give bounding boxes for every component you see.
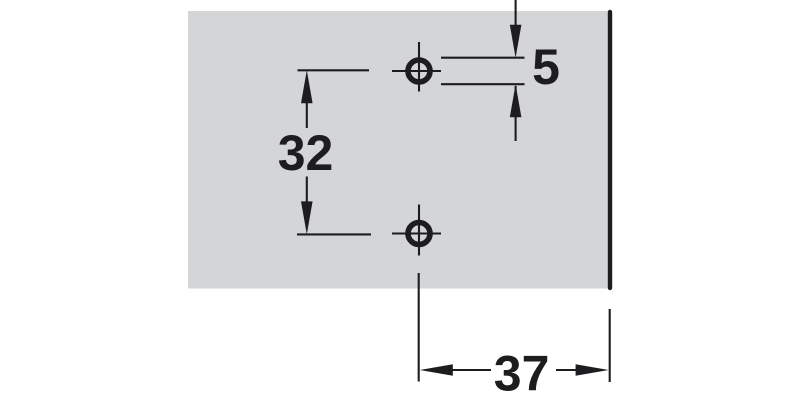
- svg-text:5: 5: [532, 39, 560, 95]
- svg-text:32: 32: [278, 125, 334, 181]
- svg-text:37: 37: [494, 345, 550, 400]
